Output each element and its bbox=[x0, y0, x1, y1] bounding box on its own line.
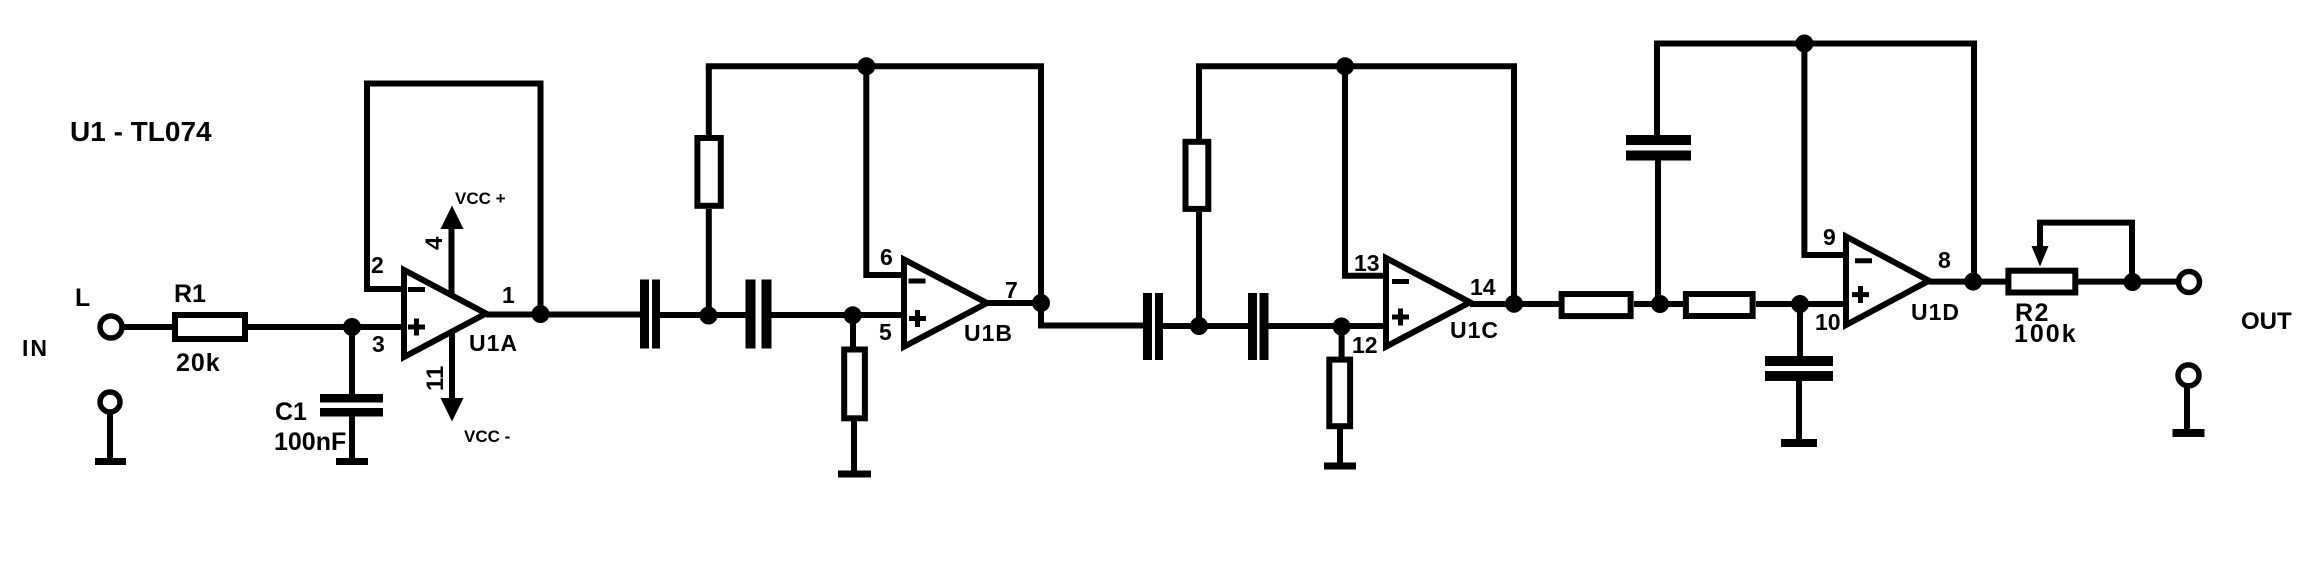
svg-text:8: 8 bbox=[1938, 247, 1951, 273]
svg-text:VCC -: VCC - bbox=[464, 427, 510, 446]
capacitor stage2 A bbox=[640, 280, 660, 349]
node stage2 plus junction bbox=[844, 306, 862, 324]
svg-text:R1: R1 bbox=[174, 280, 206, 308]
potentiometer R2 body bbox=[2008, 271, 2075, 293]
capacitor stage4 to ground bbox=[1765, 356, 1833, 381]
wire top junction down to pin 6 bbox=[866, 66, 904, 275]
ground stage4 bbox=[1781, 439, 1817, 447]
resistor stage3 feedback (vertical) bbox=[1186, 142, 1209, 209]
port IN terminal bbox=[100, 316, 122, 338]
svg-text:2: 2 bbox=[371, 252, 384, 278]
wire IN to R1 bbox=[124, 324, 172, 330]
node U1C output junction bbox=[1505, 295, 1523, 313]
svg-text:7: 7 bbox=[1005, 277, 1018, 303]
wire U1A output to stage2 cap bbox=[486, 312, 641, 318]
ground stage3 bbox=[1324, 463, 1356, 470]
capacitor stage2 B bbox=[746, 280, 772, 349]
wire junction up to feedback resistor bbox=[706, 209, 712, 315]
VCC+ arrow bbox=[441, 206, 464, 296]
svg-text:4: 4 bbox=[421, 236, 448, 250]
op-amp U1D bbox=[1846, 237, 1929, 326]
wire between stage3 caps bbox=[1163, 323, 1249, 329]
VCC- arrow bbox=[441, 333, 464, 422]
op-amp U1A bbox=[404, 270, 486, 357]
wire node A down to C1 bbox=[349, 327, 355, 395]
svg-text:VCC +: VCC + bbox=[455, 189, 506, 208]
wire junction up to feedback resistor bbox=[1196, 212, 1202, 326]
ground below C1 bbox=[336, 458, 368, 465]
svg-text:12: 12 bbox=[1352, 332, 1378, 358]
wire U1B output bbox=[987, 300, 1041, 306]
wire C1 to ground bbox=[349, 416, 355, 459]
node U1A output junction bbox=[532, 305, 550, 323]
wire between stage2 caps bbox=[660, 312, 746, 318]
node stage2 top junction bbox=[857, 57, 875, 75]
wire stage2 top rail bbox=[706, 66, 1041, 303]
op-amp U1B bbox=[904, 260, 987, 347]
capacitor stage3 B bbox=[1248, 293, 1269, 360]
svg-text:20k: 20k bbox=[176, 349, 221, 377]
svg-text:100k: 100k bbox=[2014, 320, 2078, 348]
wire top junction down to pin 9 bbox=[1804, 44, 1846, 256]
wire U1D output to R2 bbox=[1929, 279, 2006, 285]
svg-text:U1A: U1A bbox=[469, 330, 518, 356]
wire resistor to ground bbox=[851, 421, 857, 471]
potentiometer R2 wiper arrow bbox=[2032, 223, 2133, 282]
wire resistor to ground bbox=[1337, 429, 1343, 463]
node stage3 plus junction bbox=[1333, 318, 1351, 336]
svg-text:13: 13 bbox=[1354, 250, 1380, 276]
svg-text:6: 6 bbox=[880, 244, 893, 270]
wire resistor to top rail bbox=[706, 66, 712, 135]
svg-text:10: 10 bbox=[1815, 309, 1841, 335]
svg-text:5: 5 bbox=[879, 319, 892, 345]
wire stage3 cap B to U1C bbox=[1268, 323, 1386, 329]
svg-text:U1C: U1C bbox=[1450, 317, 1499, 343]
svg-text:C1: C1 bbox=[275, 398, 307, 426]
capacitor stage3 A bbox=[1143, 293, 1163, 360]
wire junction down to resistor bbox=[1339, 326, 1345, 358]
node stage4 mid junction bbox=[1651, 295, 1669, 313]
svg-text:14: 14 bbox=[1470, 274, 1496, 300]
node R2 wiper junction bbox=[2124, 273, 2142, 291]
node stage3 mid junction bbox=[1190, 317, 1208, 335]
wire ground terminal bbox=[107, 413, 113, 459]
node U1B output junction bbox=[1032, 294, 1050, 312]
resistor stage3 to ground (vertical) bbox=[1329, 360, 1350, 427]
port OUT ground terminal bbox=[2178, 365, 2199, 386]
node stage2 mid junction bbox=[700, 307, 718, 325]
svg-text:U1B: U1B bbox=[964, 320, 1013, 346]
node U1D output junction bbox=[1964, 273, 1982, 291]
wire R2 to OUT bbox=[2078, 279, 2177, 285]
capacitor C1 bbox=[320, 394, 383, 417]
svg-text:9: 9 bbox=[1823, 224, 1836, 250]
ground below OUT bbox=[2173, 429, 2205, 437]
svg-text:U1 - TL074: U1 - TL074 bbox=[70, 116, 212, 147]
wire junction down to resistor bbox=[850, 315, 856, 348]
wire stage2 cap B to U1B bbox=[770, 312, 904, 318]
wire U1B output down and right to stage3 bbox=[1041, 303, 1144, 326]
node stage4 plus junction bbox=[1791, 295, 1809, 313]
wire junction up to feedback cap bbox=[1655, 160, 1661, 304]
wire U1C output to resistor chain bbox=[1470, 301, 1559, 307]
capacitor stage4 feedback bbox=[1626, 135, 1691, 161]
resistor stage4 series B (horizontal) bbox=[1686, 294, 1753, 316]
node A junction bbox=[343, 318, 361, 336]
wire pin 2 into U1A bbox=[364, 286, 404, 292]
svg-text:3: 3 bbox=[372, 331, 385, 357]
resistor stage2 to ground (vertical) bbox=[844, 350, 865, 419]
wire stage3 top rail bbox=[1196, 66, 1514, 304]
svg-text:11: 11 bbox=[422, 366, 449, 391]
wire stage4 top rail bbox=[1654, 44, 1974, 282]
op-amp U1C bbox=[1386, 258, 1470, 347]
port IN ground terminal bbox=[100, 392, 120, 412]
svg-text:1: 1 bbox=[502, 282, 515, 308]
ground below IN bbox=[95, 458, 126, 465]
svg-text:100nF: 100nF bbox=[274, 428, 346, 456]
wire resistor to top rail bbox=[1196, 66, 1202, 139]
resistor R1 bbox=[175, 315, 245, 339]
wire R1 to node A bbox=[248, 324, 404, 330]
svg-text:IN: IN bbox=[22, 335, 49, 361]
wire between stage4 resistors bbox=[1634, 301, 1683, 307]
wire stage4 resistor B to U1D bbox=[1756, 301, 1846, 307]
wire feedback U1A: pin2 corner up, top, down to output bbox=[367, 84, 541, 315]
svg-text:OUT: OUT bbox=[2241, 308, 2292, 335]
wire junction down to cap bbox=[1797, 304, 1803, 357]
svg-text:L: L bbox=[75, 284, 90, 312]
port OUT terminal bbox=[2179, 272, 2200, 293]
wire top junction down to pin 13 bbox=[1345, 66, 1386, 275]
resistor stage4 series A (horizontal) bbox=[1562, 294, 1631, 316]
wire OUT ground terminal bbox=[2184, 386, 2190, 430]
node stage3 top junction bbox=[1336, 57, 1354, 75]
wire cap to top rail bbox=[1654, 44, 1660, 138]
node stage4 top junction bbox=[1795, 35, 1813, 53]
resistor stage2 feedback (vertical) bbox=[697, 138, 720, 206]
wire cap to ground bbox=[1796, 380, 1802, 440]
ground stage2 bbox=[838, 471, 871, 478]
svg-text:U1D: U1D bbox=[1911, 299, 1960, 325]
